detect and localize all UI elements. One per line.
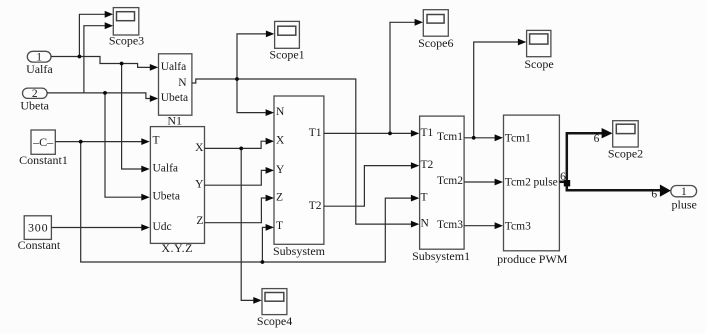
svg-text:Ubeta: Ubeta <box>153 191 180 203</box>
wire branch Constant1 bottom run to Subsystem1 T <box>81 142 420 262</box>
svg-text:produce PWM: produce PWM <box>497 252 568 266</box>
node junction Tcm1 line <box>472 136 476 140</box>
wire branch N to Scope1 <box>237 31 274 80</box>
svg-text:Y: Y <box>195 179 204 191</box>
svg-text:Scope4: Scope4 <box>257 314 292 328</box>
svg-text:300: 300 <box>28 221 48 235</box>
node junction T1 line <box>388 132 392 136</box>
wire branch Ualfa to X.Y.Z Ualfa <box>122 64 150 173</box>
wire branch T1 to Scope6 <box>390 19 423 133</box>
scope Scope3 <box>109 8 144 48</box>
svg-text:Tcm1: Tcm1 <box>505 132 531 144</box>
node junction Ualfa/Scope3 <box>78 55 82 59</box>
scope Scope6 <box>418 10 453 50</box>
svg-text:X: X <box>195 142 204 154</box>
wire N: N1.N to Subsystem1 N <box>192 79 419 228</box>
scope Scope1 <box>269 21 304 61</box>
svg-text:X.Y.Z: X.Y.Z <box>161 241 193 255</box>
wire T2: Subsystem T2 to Subsystem1 T2 <box>324 162 419 206</box>
svg-text:Ubeta: Ubeta <box>161 92 188 104</box>
svg-text:Y: Y <box>276 164 285 176</box>
node junction bottom run / Subsystem T <box>261 260 265 264</box>
wire branch N to Subsystem N <box>237 79 274 116</box>
svg-text:Tcm2: Tcm2 <box>437 175 463 187</box>
wire branch X to Scope4 <box>241 148 262 303</box>
svg-text:T: T <box>153 135 160 147</box>
svg-text:Subsystem1: Subsystem1 <box>412 249 470 263</box>
wire Tcm3: Subsystem1 to produce PWM <box>464 222 503 229</box>
wire Y: X.Y.Z Y to Subsystem Y <box>204 167 274 185</box>
wire Tcm1: Subsystem1 to produce PWM <box>464 134 503 141</box>
svg-text:Udc: Udc <box>153 221 172 233</box>
wire Constant 300 to X.Y.Z Udc <box>51 224 149 231</box>
svg-text:pulse: pulse <box>534 177 558 189</box>
svg-text:Tcm3: Tcm3 <box>505 220 531 232</box>
inport 1 Ualfa <box>26 51 53 76</box>
subsystem X.Y.Z <box>150 127 204 256</box>
svg-text:Z: Z <box>276 191 283 203</box>
node junction Ualfa/XYZ <box>120 62 124 66</box>
subsystem Subsystem <box>273 96 326 258</box>
svg-text:N1: N1 <box>167 114 182 128</box>
svg-text:T1: T1 <box>309 127 322 139</box>
node junction pulse (square) <box>564 180 570 186</box>
svg-text:Ualfa: Ualfa <box>161 61 187 73</box>
svg-text:Tcm2: Tcm2 <box>505 177 531 189</box>
wire Ubeta: inport2 to N1.Ubeta <box>47 93 158 102</box>
scope Scope2 <box>608 121 643 161</box>
svg-text:Tcm3: Tcm3 <box>437 219 463 231</box>
outport 1 pluse <box>671 186 697 212</box>
wire branch pulse to Scope2 (wide) <box>567 128 613 183</box>
wire Ualfa: inport1 to N1.Ualfa <box>51 57 158 71</box>
wire Z: X.Y.Z Z to Subsystem Z <box>204 195 274 223</box>
subsystem Subsystem1 <box>412 116 470 263</box>
svg-text:Ualfa: Ualfa <box>153 162 179 174</box>
node junction X line <box>239 147 243 151</box>
scope Scope4 <box>257 289 292 329</box>
svg-text:Constant: Constant <box>18 238 61 252</box>
svg-text:X: X <box>276 134 285 146</box>
svg-text:T: T <box>421 192 428 204</box>
wire pulse (wide, width 6) produce PWM output stub <box>559 181 566 184</box>
wire branch bottom run to Subsystem T <box>262 224 274 262</box>
svg-text:N: N <box>276 106 285 118</box>
node junction Constant1 <box>79 140 83 144</box>
svg-text:6: 6 <box>594 133 600 145</box>
svg-text:Ubeta: Ubeta <box>20 98 49 112</box>
svg-text:Constant1: Constant1 <box>19 153 68 167</box>
wire Tcm2: Subsystem1 to produce PWM <box>464 179 503 186</box>
node junction Ubeta/XYZ <box>103 91 107 95</box>
svg-text:Z: Z <box>196 215 203 227</box>
constant Constant1 (-C-) <box>19 130 68 167</box>
wire branch Tcm1 to Scope <box>474 39 527 138</box>
svg-text:Tcm1: Tcm1 <box>437 131 463 143</box>
scope Scope <box>524 30 553 71</box>
svg-text:N: N <box>178 77 187 89</box>
svg-text:T2: T2 <box>421 159 434 171</box>
subsystem produce PWM <box>497 115 568 266</box>
svg-text:Scope2: Scope2 <box>608 146 643 160</box>
wire branch Ubeta to X.Y.Z Ubeta <box>105 93 150 201</box>
wire branch Ualfa to Scope3 input1 <box>79 11 113 57</box>
wire T1: Subsystem T1 to Subsystem1 T1 <box>324 130 419 137</box>
svg-text:Scope3: Scope3 <box>109 33 144 47</box>
svg-text:pluse: pluse <box>672 197 697 211</box>
svg-text:T: T <box>276 220 283 232</box>
svg-text:Ualfa: Ualfa <box>26 62 53 76</box>
svg-text:6: 6 <box>560 171 566 183</box>
svg-text:T2: T2 <box>309 200 322 212</box>
svg-text:N: N <box>421 218 430 230</box>
svg-text:T1: T1 <box>421 127 434 139</box>
inport 2 Ubeta <box>20 88 49 112</box>
wire Constant1 to X.Y.Z T <box>55 138 149 145</box>
node junction N line <box>235 77 239 81</box>
wire branch Ubeta to Scope3 input2 <box>84 22 113 93</box>
svg-text:Subsystem: Subsystem <box>273 244 326 258</box>
svg-text:–C–: –C– <box>32 135 54 149</box>
svg-text:Scope6: Scope6 <box>418 36 453 50</box>
svg-text:6: 6 <box>651 188 657 200</box>
wire X: X.Y.Z X to Subsystem X <box>204 138 274 149</box>
constant Constant (300) <box>18 216 61 252</box>
svg-text:1: 1 <box>681 186 687 198</box>
svg-text:Scope1: Scope1 <box>269 47 304 61</box>
svg-text:Scope: Scope <box>524 57 553 71</box>
subsystem N1 <box>159 54 192 128</box>
wire branch pulse to outport pluse (wide) <box>567 182 671 197</box>
